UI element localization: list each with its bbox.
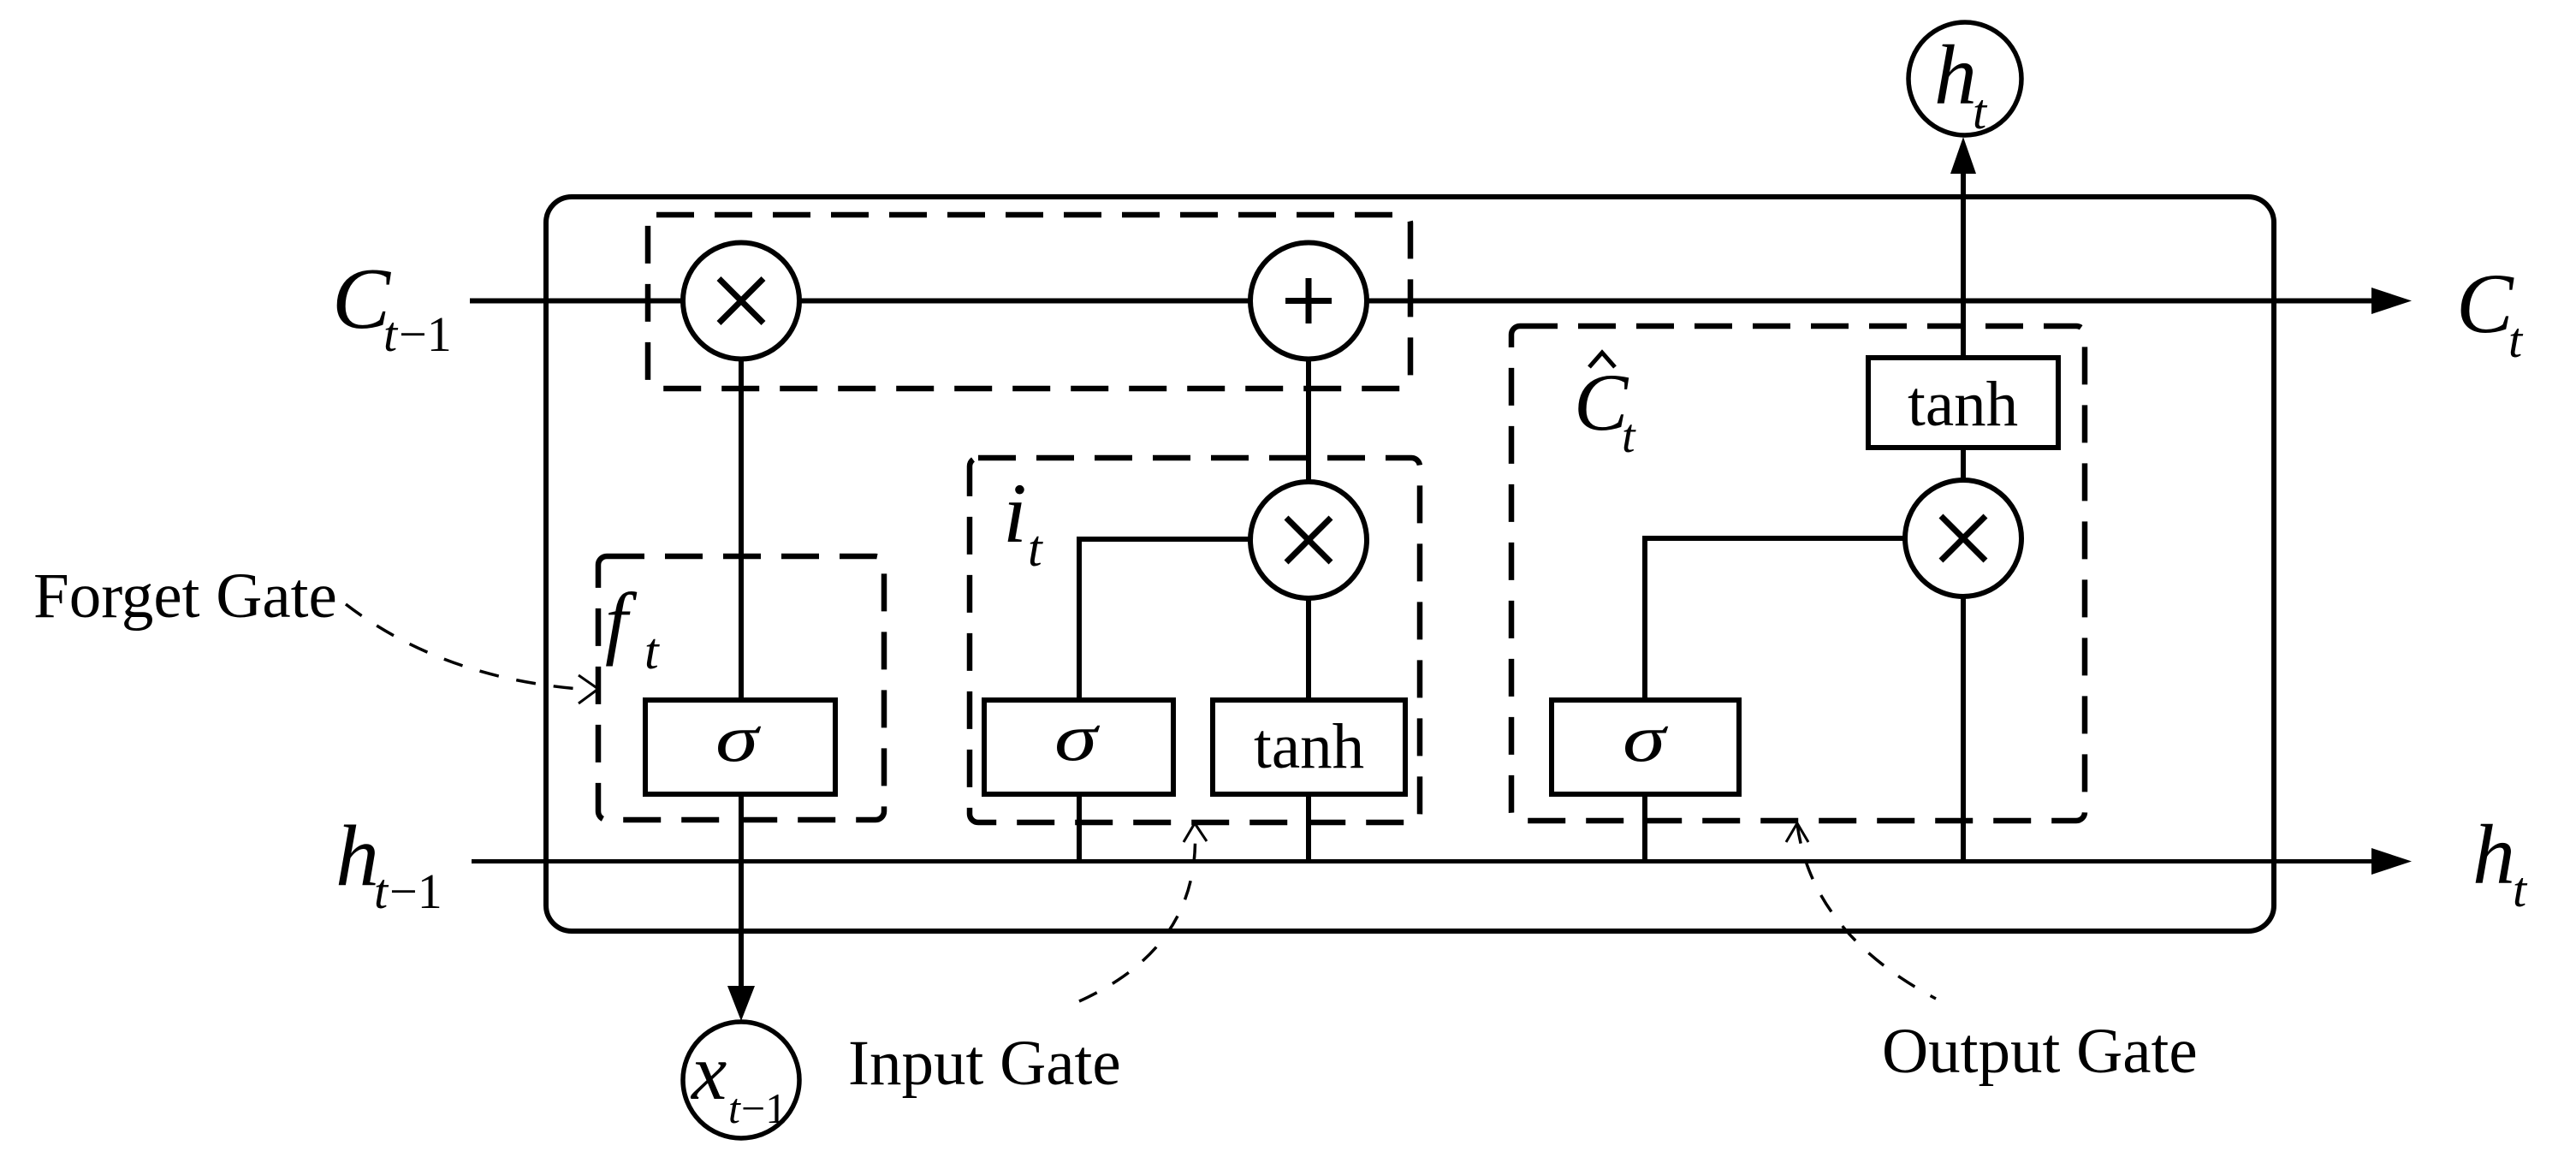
LSTM cell outer box: [546, 197, 2274, 931]
svg-text:C: C: [2456, 256, 2514, 351]
svg-text:Input Gate: Input Gate: [848, 1028, 1121, 1099]
svg-text:i: i: [1003, 466, 1027, 561]
box: output sigma: [1552, 700, 1739, 794]
dashed box: output gate: [1511, 326, 2085, 821]
svg-text:t: t: [2513, 862, 2528, 917]
dashed box: forget gate: [598, 556, 884, 820]
svg-text:σ: σ: [1054, 700, 1100, 774]
wire: plus circle down through input x and tanh to h line: [1306, 300, 1311, 861]
svg-text:t: t: [2508, 312, 2524, 368]
svg-text:t: t: [1622, 410, 1636, 463]
svg-text:h: h: [2472, 807, 2515, 902]
svg-text:σ: σ: [715, 701, 761, 775]
annotation: input gate dashed arrow: [1079, 826, 1196, 1001]
svg-text:h: h: [1934, 27, 1977, 122]
arrow: ht output (right end of h line): [2371, 848, 2412, 875]
node: multiply circle A (forget): [683, 243, 799, 359]
svg-text:h: h: [335, 808, 379, 905]
svg-text:t: t: [383, 306, 399, 362]
box: input sigma: [984, 700, 1173, 794]
wire: forget vertical (x circle A down to x_t-1 arrow): [739, 300, 744, 987]
svg-text:t: t: [728, 1084, 741, 1132]
wire: input sigma up-and-right to input x circle: [1079, 539, 1309, 861]
svg-text:σ: σ: [1623, 701, 1668, 775]
wire: output sigma up-and-right to output x circle: [1645, 538, 1963, 861]
node: multiply circle C (input): [1250, 482, 1367, 598]
arrow: Ct output (right end of C line): [2371, 288, 2412, 314]
dashed box: cell-state operations (x and +): [648, 215, 1410, 389]
node: x_t-1 circle (bottom): [683, 1022, 799, 1138]
annotation: forget gate dashed arrow: [346, 604, 591, 690]
svg-text:Forget Gate: Forget Gate: [33, 561, 337, 632]
svg-text:−1: −1: [399, 306, 452, 362]
svg-text:t: t: [1973, 84, 1988, 139]
dashed box: input gate: [970, 458, 1420, 822]
svg-text:−1: −1: [741, 1084, 786, 1132]
svg-text:t: t: [1028, 520, 1043, 577]
wire: C line (Ct-1 to Ct): [470, 299, 2372, 304]
arrow: down into x_t-1 circle: [727, 986, 755, 1021]
svg-text:t: t: [644, 623, 660, 679]
svg-text:Output Gate: Output Gate: [1882, 1016, 2198, 1087]
box: output tanh (top): [1868, 358, 2058, 448]
svg-text:t: t: [374, 863, 389, 919]
svg-text:−1: −1: [389, 863, 442, 919]
node: ht output circle (top): [1908, 22, 2021, 135]
svg-text:x: x: [690, 1029, 727, 1117]
svg-text:C: C: [332, 251, 391, 347]
annotation: output gate dashed arrow: [1797, 824, 1936, 999]
svg-text:tanh: tanh: [1908, 369, 2018, 440]
svg-text:tanh: tanh: [1254, 711, 1364, 782]
node: add circle B: [1250, 243, 1367, 359]
arrow: up into ht circle: [1950, 137, 1976, 174]
box: input tanh: [1213, 700, 1405, 794]
node: multiply circle D (output): [1905, 480, 2021, 596]
box: forget sigma: [645, 700, 835, 794]
wire: h line (ht-1 to ht): [472, 859, 2372, 863]
wire: ht vertical (ht circle down through tanh and x to h line): [1961, 173, 1966, 861]
